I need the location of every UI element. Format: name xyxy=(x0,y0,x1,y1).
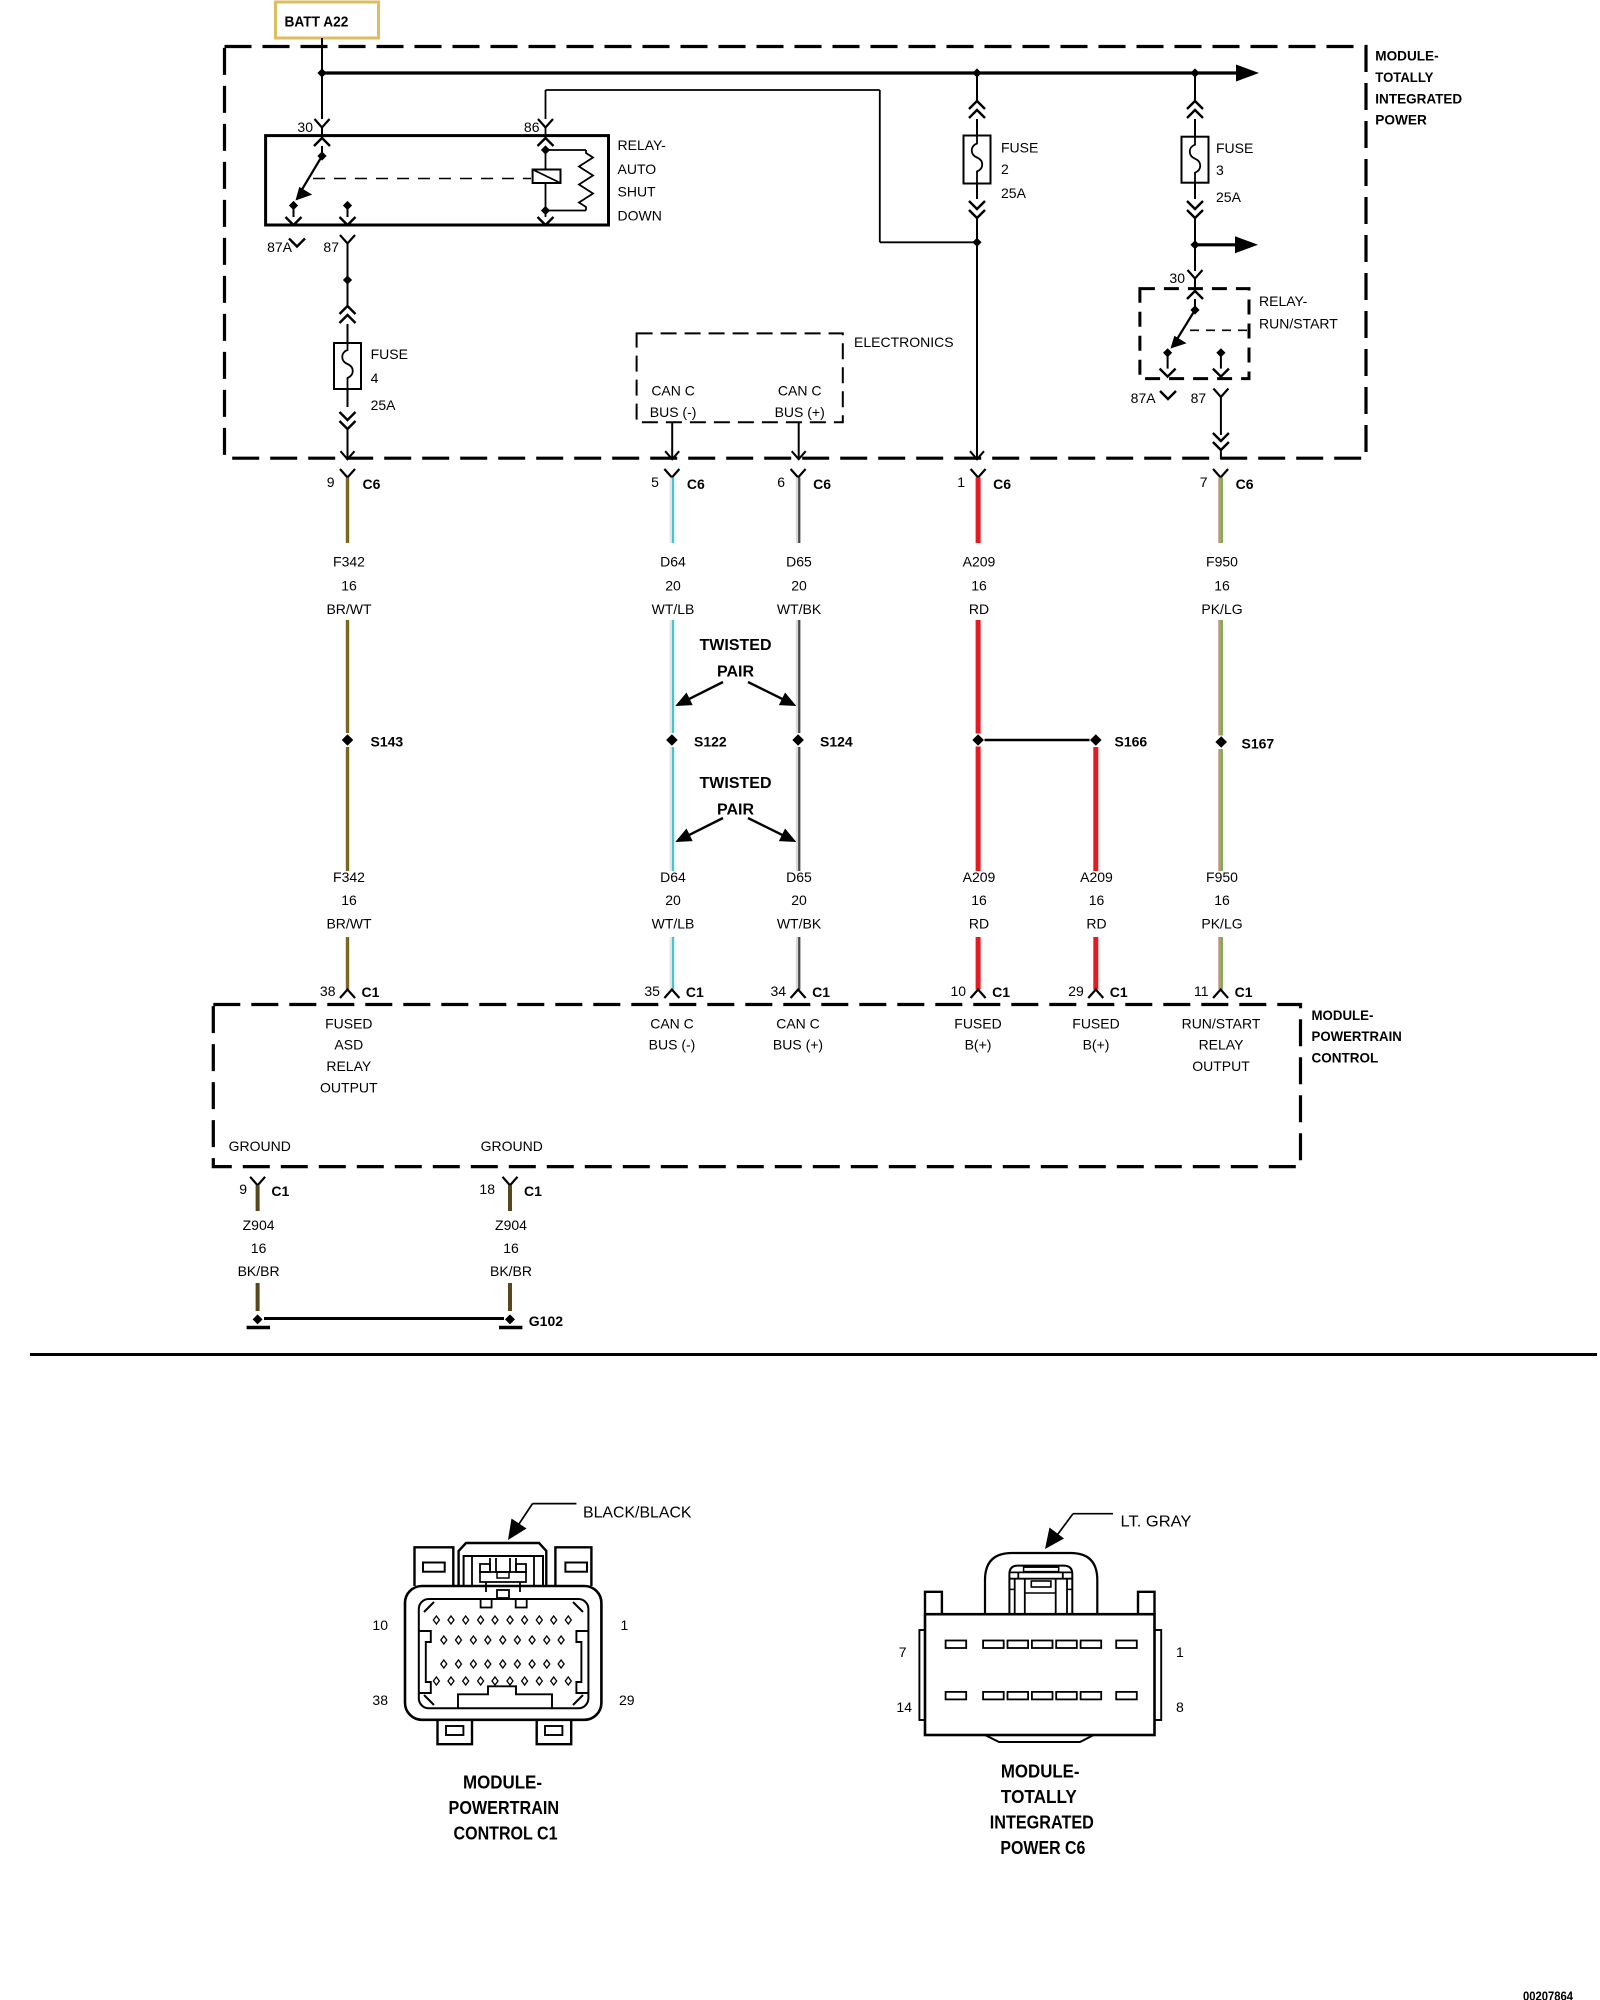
node - junction fuse3 top xyxy=(1190,68,1199,77)
connector C6 top-left ear xyxy=(925,1592,942,1614)
svg-text:F950: F950 xyxy=(1206,554,1238,570)
relay-ASD switch arm common to 87A xyxy=(301,156,323,192)
svg-text:25A: 25A xyxy=(1216,189,1242,205)
svg-text:30: 30 xyxy=(1169,270,1185,286)
svg-text:S122: S122 xyxy=(694,734,727,750)
splice S143 xyxy=(342,734,354,746)
svg-text:MODULE-: MODULE- xyxy=(463,1773,542,1793)
wire F950 16 PK/LG upper segment xyxy=(1218,478,1220,544)
wire A209 to PCM pin29 xyxy=(1093,937,1098,990)
connector C6 pin slots xyxy=(946,1641,967,1649)
svg-text:00207864: 00207864 xyxy=(1523,1990,1573,2000)
wire Z904 16 BK/BR pin18 upper xyxy=(508,1185,512,1211)
svg-text:87: 87 xyxy=(323,239,339,255)
svg-text:87A: 87A xyxy=(267,239,293,255)
connector C1 pin diamonds grid xyxy=(433,1616,439,1624)
svg-text:CONTROL C1: CONTROL C1 xyxy=(454,1824,558,1844)
svg-text:9: 9 xyxy=(239,1181,247,1197)
ground G102 symbol right xyxy=(505,1314,515,1324)
wire A209 to PCM pin10 xyxy=(976,937,981,990)
svg-text:A209: A209 xyxy=(1080,869,1113,885)
svg-text:29: 29 xyxy=(1068,983,1084,999)
svg-text:F342: F342 xyxy=(333,554,365,570)
wire F342 segment to splice S143 xyxy=(346,620,349,733)
svg-text:BUS (+): BUS (+) xyxy=(775,404,825,420)
svg-text:C6: C6 xyxy=(363,476,381,492)
svg-text:87A: 87A xyxy=(1131,390,1157,406)
svg-text:5: 5 xyxy=(651,474,659,490)
callout arrow LT. GRAY xyxy=(1073,1513,1113,1515)
wire - ground bus link xyxy=(264,1317,504,1320)
svg-text:S166: S166 xyxy=(1115,734,1148,750)
wire - fuse3 output feed right xyxy=(1195,243,1236,246)
relay-ASD contact 87 xyxy=(343,201,352,210)
svg-text:C6: C6 xyxy=(993,476,1011,492)
svg-text:7: 7 xyxy=(1200,474,1208,490)
svg-text:Z904: Z904 xyxy=(495,1217,527,1233)
svg-text:CAN C: CAN C xyxy=(778,383,822,399)
svg-text:10: 10 xyxy=(372,1617,388,1633)
svg-text:BUS (+): BUS (+) xyxy=(773,1037,823,1053)
svg-text:FUSED: FUSED xyxy=(954,1016,1001,1032)
svg-text:RD: RD xyxy=(969,916,989,932)
svg-text:CAN C: CAN C xyxy=(776,1016,820,1032)
svg-text:BUS (-): BUS (-) xyxy=(649,1037,696,1053)
svg-text:C6: C6 xyxy=(687,476,705,492)
connector C1 bottom index xyxy=(458,1686,552,1708)
svg-text:6: 6 xyxy=(777,474,785,490)
svg-text:WT/LB: WT/LB xyxy=(652,916,695,932)
splice S166 xyxy=(1090,734,1102,746)
svg-text:25A: 25A xyxy=(371,397,397,413)
svg-text:LT. GRAY: LT. GRAY xyxy=(1121,1514,1192,1531)
svg-text:D65: D65 xyxy=(786,869,812,885)
callout arrow BLACK/BLACK xyxy=(533,1503,577,1505)
node - junction fuse3 output xyxy=(1190,240,1199,249)
svg-text:10: 10 xyxy=(951,983,967,999)
svg-text:16: 16 xyxy=(341,578,357,594)
wire A209 from S166 down xyxy=(1093,747,1098,871)
wire A209 16 RD upper segment xyxy=(976,478,981,544)
svg-text:BR/WT: BR/WT xyxy=(326,601,372,617)
relay-run/start pin30 internal terminal xyxy=(1187,291,1203,299)
svg-text:S143: S143 xyxy=(371,734,404,750)
arrow twisted pair lower-right xyxy=(748,818,784,836)
connector C1 latch xyxy=(459,1543,547,1586)
svg-text:MODULE-: MODULE- xyxy=(1375,48,1439,64)
svg-text:RELAY-: RELAY- xyxy=(1259,293,1308,309)
node - A209 junction to S166 xyxy=(972,734,984,746)
svg-text:A209: A209 xyxy=(963,869,996,885)
svg-text:GROUND: GROUND xyxy=(481,1138,543,1154)
svg-text:WT/LB: WT/LB xyxy=(652,601,695,617)
wire - CAN C(-) to pin5 with arrow xyxy=(671,422,673,459)
svg-text:C1: C1 xyxy=(1235,984,1253,1000)
relay-ASD pin30 internal terminal xyxy=(314,138,330,146)
svg-text:C1: C1 xyxy=(992,984,1010,1000)
wire - relay87 down to fuse4 xyxy=(347,244,349,281)
svg-text:FUSE: FUSE xyxy=(1216,140,1253,156)
svg-text:WT/BK: WT/BK xyxy=(777,601,822,617)
splice S122 xyxy=(666,734,678,746)
wire Z904 pin18 lower xyxy=(508,1283,512,1311)
fuse F4 xyxy=(334,343,361,389)
svg-text:C6: C6 xyxy=(1236,476,1254,492)
resistor - relay-ASD suppression resistor xyxy=(546,149,587,151)
svg-text:FUSED: FUSED xyxy=(325,1016,372,1032)
svg-text:C1: C1 xyxy=(362,984,380,1000)
svg-text:TWISTED: TWISTED xyxy=(700,637,772,654)
svg-text:POWER: POWER xyxy=(1375,112,1427,128)
node - junction fuse2 top xyxy=(972,68,981,77)
wire F950 below S167 xyxy=(1218,749,1220,871)
connector C6 top-right ear xyxy=(1138,1592,1155,1614)
svg-text:POWER C6: POWER C6 xyxy=(1000,1838,1085,1858)
svg-text:87: 87 xyxy=(1191,390,1207,406)
connector C6 right side key xyxy=(1155,1630,1162,1720)
svg-text:RELAY: RELAY xyxy=(1199,1037,1245,1053)
connector symbol - inline below fuse 3 xyxy=(1187,210,1203,218)
separator line xyxy=(30,1353,1597,1356)
relay-run/start contact 87 xyxy=(1216,348,1225,357)
wire D64 segment to splice S122 xyxy=(670,620,672,733)
relay-ASD actuation dashed line xyxy=(313,178,531,180)
wire D64 to PCM pin35 xyxy=(670,937,672,990)
svg-text:TOTALLY: TOTALLY xyxy=(1375,69,1434,85)
svg-text:RD: RD xyxy=(1086,916,1106,932)
svg-text:C1: C1 xyxy=(524,1183,542,1199)
svg-text:BUS (-): BUS (-) xyxy=(650,404,697,420)
svg-text:RUN/START: RUN/START xyxy=(1182,1016,1261,1032)
svg-text:CONTROL: CONTROL xyxy=(1312,1050,1379,1066)
svg-text:30: 30 xyxy=(297,119,313,135)
wire - fuse2 branch from bus xyxy=(976,73,978,101)
svg-text:B(+): B(+) xyxy=(965,1037,992,1053)
wire - node down to relay pin 30 xyxy=(321,73,323,119)
connector C1 corner wedges xyxy=(424,1602,583,1705)
splice S167 xyxy=(1215,736,1227,748)
arrow twisted pair upper-left xyxy=(688,682,724,700)
connector C1 bottom-left tab xyxy=(438,1720,473,1744)
svg-text:RELAY: RELAY xyxy=(326,1058,372,1074)
svg-text:POWERTRAIN: POWERTRAIN xyxy=(449,1798,560,1818)
svg-text:14: 14 xyxy=(896,1699,912,1715)
module box - ELECTRONICS dashed xyxy=(637,333,843,422)
svg-text:18: 18 xyxy=(479,1181,495,1197)
battery feed label BATT A22 xyxy=(276,2,379,38)
connector symbol - inline below fuse 4 xyxy=(340,421,356,429)
svg-text:ELECTRONICS: ELECTRONICS xyxy=(854,334,954,350)
svg-text:RUN/START: RUN/START xyxy=(1259,316,1338,332)
connector C6 bottom index xyxy=(985,1735,1094,1742)
svg-text:1: 1 xyxy=(621,1617,629,1633)
svg-text:16: 16 xyxy=(971,578,987,594)
svg-text:BLACK/BLACK: BLACK/BLACK xyxy=(583,1505,692,1522)
wire - CAN C(+) to pin6 with arrow xyxy=(798,422,800,459)
connector symbol - inline above fuse 3 xyxy=(1187,101,1203,109)
wire A209 segment to junction xyxy=(976,620,981,734)
svg-text:3: 3 xyxy=(1216,162,1224,178)
svg-text:29: 29 xyxy=(619,1692,635,1708)
svg-text:FUSED: FUSED xyxy=(1072,1016,1119,1032)
svg-text:16: 16 xyxy=(341,892,357,908)
svg-text:F950: F950 xyxy=(1206,869,1238,885)
svg-text:PAIR: PAIR xyxy=(717,802,754,819)
svg-text:38: 38 xyxy=(372,1692,388,1708)
relay-ASD pin86 internal terminal xyxy=(538,138,554,146)
relay-run/start switch arm xyxy=(1177,310,1196,340)
svg-text:38: 38 xyxy=(320,983,336,999)
connector C6 latch detail xyxy=(1009,1566,1072,1615)
svg-text:C1: C1 xyxy=(1110,984,1128,1000)
svg-text:RD: RD xyxy=(969,601,989,617)
svg-text:Z904: Z904 xyxy=(243,1217,275,1233)
connector face MODULE-POWERTRAIN CONTROL C1 body xyxy=(405,1586,601,1720)
svg-text:MODULE-: MODULE- xyxy=(1001,1761,1080,1781)
svg-text:BK/BR: BK/BR xyxy=(238,1263,280,1279)
relay-run/start actuation dashed line xyxy=(1190,329,1247,331)
connector C1 right key xyxy=(576,1631,588,1693)
svg-text:INTEGRATED: INTEGRATED xyxy=(990,1812,1094,1832)
svg-text:20: 20 xyxy=(665,578,681,594)
wire - link to splice S166 xyxy=(985,739,1090,741)
svg-text:MODULE-: MODULE- xyxy=(1312,1007,1374,1023)
svg-text:1: 1 xyxy=(1176,1644,1184,1660)
svg-text:16: 16 xyxy=(971,892,987,908)
wire - fuse4 down xyxy=(347,389,349,407)
node - junction BATT/relay30 xyxy=(317,68,326,77)
svg-text:20: 20 xyxy=(791,892,807,908)
svg-text:8: 8 xyxy=(1176,1699,1184,1715)
node - junction fuse2/86-feed xyxy=(972,238,981,247)
arrow twisted pair upper-right xyxy=(748,682,784,700)
svg-text:20: 20 xyxy=(791,578,807,594)
wire - fuse3 branch from bus xyxy=(1194,73,1196,101)
svg-text:D65: D65 xyxy=(786,554,812,570)
wire F342 16 BR/WT upper segment xyxy=(346,478,349,544)
connector C1 left key xyxy=(419,1631,431,1693)
svg-text:TOTALLY: TOTALLY xyxy=(1001,1787,1077,1807)
connector symbol - inline on pin7 wire xyxy=(1213,442,1229,450)
svg-text:A209: A209 xyxy=(963,554,996,570)
svg-text:C6: C6 xyxy=(813,476,831,492)
svg-text:11: 11 xyxy=(1194,983,1209,999)
wire - run/start 87 down to pin7 xyxy=(1220,397,1222,435)
svg-text:16: 16 xyxy=(503,1240,519,1256)
svg-text:D64: D64 xyxy=(660,554,686,570)
connector C6 latch dome xyxy=(985,1553,1097,1614)
svg-text:SHUT: SHUT xyxy=(618,184,657,200)
relay K2 RELAY-RUN/START dashed box xyxy=(1140,289,1249,379)
relay K1 RELAY-AUTO SHUT DOWN box xyxy=(266,136,609,225)
wire F342 below S143 xyxy=(346,747,349,871)
svg-text:7: 7 xyxy=(899,1644,907,1660)
svg-text:OUTPUT: OUTPUT xyxy=(1192,1058,1250,1074)
svg-text:POWERTRAIN: POWERTRAIN xyxy=(1312,1028,1402,1044)
svg-text:BK/BR: BK/BR xyxy=(490,1263,532,1279)
svg-text:C1: C1 xyxy=(686,984,704,1000)
svg-text:TWISTED: TWISTED xyxy=(700,775,772,792)
wire D65 20 WT/BK upper segment xyxy=(796,478,798,544)
svg-text:ASD: ASD xyxy=(334,1037,363,1053)
connector C1 latch feet xyxy=(486,1582,520,1592)
fuse F2 xyxy=(964,136,991,184)
svg-text:S124: S124 xyxy=(820,734,853,750)
svg-text:D64: D64 xyxy=(660,869,686,885)
wire Z904 16 BK/BR pin9 upper xyxy=(256,1185,260,1211)
wire F342 to PCM pin38 xyxy=(346,937,349,990)
svg-text:AUTO: AUTO xyxy=(618,161,657,177)
connector symbol - inline above fuse 4 xyxy=(340,306,356,314)
arrow - fuse3 feed continues right xyxy=(1235,236,1258,253)
svg-text:CAN C: CAN C xyxy=(651,383,695,399)
connector symbol - inline below fuse 2 xyxy=(969,210,985,218)
wire A209 below junction to label xyxy=(976,747,981,872)
svg-text:FUSE: FUSE xyxy=(1001,140,1038,156)
wire D64 20 WT/LB upper segment xyxy=(670,478,672,544)
svg-text:20: 20 xyxy=(665,892,681,908)
svg-text:B(+): B(+) xyxy=(1083,1037,1110,1053)
svg-text:OUTPUT: OUTPUT xyxy=(320,1079,378,1095)
svg-text:25A: 25A xyxy=(1001,185,1027,201)
arrow - wire crossing TIPM border at pin9 xyxy=(341,451,355,459)
arrow twisted pair lower-left xyxy=(688,818,724,836)
svg-text:G102: G102 xyxy=(529,1313,563,1329)
svg-text:BATT A22: BATT A22 xyxy=(285,14,349,31)
svg-text:F342: F342 xyxy=(333,869,365,885)
svg-text:9: 9 xyxy=(327,474,335,490)
relay-run/start contact 87A xyxy=(1163,348,1172,357)
relay-ASD bottom exits xyxy=(538,217,554,225)
wire F950 to PCM pin11 xyxy=(1218,937,1220,990)
wire Z904 pin9 lower xyxy=(256,1283,260,1311)
relay-ASD coil xyxy=(545,150,547,170)
svg-text:PAIR: PAIR xyxy=(717,664,754,681)
svg-text:34: 34 xyxy=(771,983,787,999)
arrow - wire crossing TIPM border at pin1 xyxy=(970,451,984,459)
connector face MODULE-TIPM C6 body xyxy=(925,1614,1155,1735)
svg-text:16: 16 xyxy=(1214,578,1230,594)
wire F950 segment to splice S167 xyxy=(1218,620,1220,736)
wire - 86 feed horizontal from fuse2 branch xyxy=(546,89,880,91)
connector C6 left side key xyxy=(919,1630,925,1720)
connector symbol - inline above fuse 2 xyxy=(969,101,985,109)
svg-text:C1: C1 xyxy=(812,984,830,1000)
wire D65 segment to splice S124 xyxy=(796,620,798,733)
module box - POWERTRAIN CONTROL dashed border xyxy=(213,1005,1300,1167)
svg-text:16: 16 xyxy=(1089,892,1105,908)
connector C1 bottom-right tab xyxy=(537,1720,572,1744)
svg-text:FUSE: FUSE xyxy=(371,346,408,362)
svg-text:BR/WT: BR/WT xyxy=(326,916,372,932)
svg-text:35: 35 xyxy=(644,983,660,999)
svg-text:86: 86 xyxy=(524,119,540,135)
connector C1 top-right mounting tab xyxy=(555,1547,591,1586)
wire D65 below S124 xyxy=(796,747,798,871)
wire D64 below S122 xyxy=(670,747,672,871)
svg-text:1: 1 xyxy=(957,474,965,490)
svg-text:2: 2 xyxy=(1001,161,1009,177)
arrow - battery bus continues right xyxy=(1236,65,1259,82)
svg-text:WT/BK: WT/BK xyxy=(777,916,822,932)
svg-text:16: 16 xyxy=(251,1240,267,1256)
svg-text:CAN C: CAN C xyxy=(650,1016,694,1032)
module box - TIPM dashed border xyxy=(225,47,1367,459)
relay-ASD contact 87A xyxy=(289,201,298,210)
svg-text:GROUND: GROUND xyxy=(229,1138,291,1154)
svg-text:PK/LG: PK/LG xyxy=(1201,601,1242,617)
svg-text:4: 4 xyxy=(371,370,379,386)
svg-text:RELAY-: RELAY- xyxy=(618,137,667,153)
svg-text:INTEGRATED: INTEGRATED xyxy=(1375,90,1462,106)
svg-text:S167: S167 xyxy=(1242,736,1275,752)
splice S124 xyxy=(792,734,804,746)
svg-text:PK/LG: PK/LG xyxy=(1201,916,1242,932)
wire - main battery bus horizontal xyxy=(322,71,1237,74)
node - junction on fuse4 wire xyxy=(343,275,352,284)
svg-text:C1: C1 xyxy=(271,1183,289,1199)
ground G102 symbol left xyxy=(253,1314,263,1324)
fuse F3 xyxy=(1182,137,1209,183)
connector C1 top-left mounting tab xyxy=(415,1547,454,1586)
wire D65 to PCM pin34 xyxy=(796,937,798,990)
wire - BATT A22 down to node xyxy=(321,38,323,73)
svg-text:16: 16 xyxy=(1214,892,1230,908)
svg-text:DOWN: DOWN xyxy=(618,208,662,224)
